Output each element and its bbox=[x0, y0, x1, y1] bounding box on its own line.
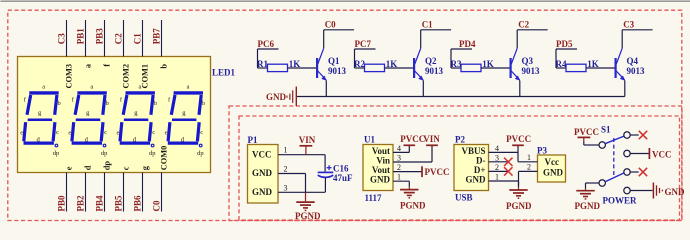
wire collector Q1 bbox=[324, 30, 354, 49]
wire P2 pin1 to ground node bbox=[489, 180, 519, 182]
power section inner dashed box bbox=[239, 116, 680, 220]
wire P3 pin1 to PVCC node bbox=[518, 161, 538, 163]
svg-text:PVCC: PVCC bbox=[425, 167, 450, 177]
switch S1 value POWER bbox=[603, 196, 638, 206]
svg-text:C1: C1 bbox=[422, 20, 433, 30]
svg-text:P3: P3 bbox=[537, 145, 547, 155]
svg-text:a: a bbox=[90, 84, 93, 91]
svg-text:Q4: Q4 bbox=[627, 56, 639, 66]
display pin wire top 4 bbox=[123, 20, 125, 57]
power port PGND under S1 bbox=[575, 189, 601, 211]
wire base R2 to Q2 bbox=[385, 67, 414, 69]
svg-text:c: c bbox=[56, 129, 59, 136]
wire PC6 stub bbox=[258, 49, 279, 68]
value 1K R2 bbox=[386, 59, 398, 69]
svg-text:b: b bbox=[106, 100, 109, 107]
digit 4 segment labels bbox=[165, 84, 205, 157]
digit 4 segments bbox=[168, 93, 203, 147]
power port PGND under P1 bbox=[295, 192, 321, 221]
resistor R3 bbox=[461, 64, 481, 71]
display pin name d bbox=[84, 165, 93, 170]
display pin name COM3 bbox=[65, 64, 74, 89]
svg-text:4: 4 bbox=[397, 144, 401, 153]
ground rail wire bbox=[297, 96, 625, 98]
svg-text:1: 1 bbox=[397, 173, 401, 182]
display pin wire top 1 bbox=[66, 20, 68, 57]
svg-text:C2: C2 bbox=[518, 20, 529, 30]
display pin wire bottom 1 bbox=[66, 173, 68, 212]
svg-text:D-: D- bbox=[476, 156, 486, 166]
switch S1 throw contact 4 bbox=[624, 187, 630, 193]
svg-text:c: c bbox=[152, 129, 155, 136]
svg-text:S1: S1 bbox=[601, 125, 611, 135]
value 47uF bbox=[333, 173, 353, 183]
svg-text:C0: C0 bbox=[325, 20, 336, 30]
switch S1 mechanical link bbox=[613, 138, 615, 178]
value 1K R1 bbox=[289, 59, 301, 69]
wire throw1 to no-connect bbox=[630, 134, 639, 136]
svg-text:PB2: PB2 bbox=[76, 195, 86, 212]
transistor Q3 bbox=[511, 48, 521, 81]
svg-text:1K: 1K bbox=[482, 59, 494, 69]
designator R3 bbox=[451, 59, 462, 69]
svg-text:PVCC: PVCC bbox=[506, 134, 531, 144]
net label PD4 bbox=[459, 39, 476, 49]
net label C3 bbox=[623, 20, 634, 30]
wire P2 pin4 to PVCC node bbox=[489, 151, 519, 153]
svg-text:c: c bbox=[104, 129, 107, 136]
P1 pin numbers bbox=[284, 146, 288, 193]
wire base R1 to Q1 bbox=[288, 67, 317, 69]
wire emitter Q1 bbox=[325, 81, 327, 97]
wire PVCC node vertical bbox=[517, 146, 519, 162]
svg-text:dp: dp bbox=[101, 150, 108, 157]
digit 2 segment labels bbox=[68, 84, 108, 157]
net label PB1 bbox=[76, 28, 86, 45]
svg-text:GND: GND bbox=[266, 92, 287, 102]
display pin wire bottom 4 bbox=[123, 173, 125, 212]
svg-text:COM1: COM1 bbox=[141, 64, 150, 89]
net label PB2 bbox=[76, 195, 86, 212]
net label C3 bbox=[57, 33, 67, 44]
svg-text:LED1: LED1 bbox=[212, 68, 236, 78]
wire base R4 to Q4 bbox=[586, 67, 615, 69]
svg-text:Q2: Q2 bbox=[425, 56, 437, 66]
designator Q3 bbox=[522, 56, 534, 66]
designator R1 bbox=[257, 59, 268, 69]
svg-text:R3: R3 bbox=[451, 59, 462, 69]
display designator LED1 bbox=[212, 68, 236, 78]
wire collector Q4 bbox=[622, 30, 652, 49]
svg-text:PGND: PGND bbox=[295, 211, 321, 221]
wire throw3 to no-connect bbox=[630, 171, 639, 173]
wire U1 pin3 to VIN bbox=[393, 146, 432, 162]
svg-text:PGND: PGND bbox=[400, 201, 426, 211]
svg-text:9013: 9013 bbox=[425, 66, 444, 76]
svg-text:PB7: PB7 bbox=[152, 28, 162, 45]
net label PB0 bbox=[57, 195, 67, 212]
svg-text:PGND: PGND bbox=[575, 201, 601, 211]
svg-text:GND: GND bbox=[252, 168, 273, 178]
display pin name COM1 bbox=[141, 64, 150, 89]
svg-text:3: 3 bbox=[284, 183, 288, 192]
svg-text:dp: dp bbox=[53, 150, 60, 157]
digit 1 segments bbox=[24, 93, 59, 147]
value 9013 Q3 bbox=[522, 66, 541, 76]
display pin name e bbox=[65, 166, 74, 170]
net label PB4 bbox=[95, 195, 105, 212]
P3 pin numbers bbox=[527, 153, 531, 172]
wire emitter Q3 bbox=[519, 81, 521, 97]
net label PC6 bbox=[258, 39, 275, 49]
designator C16 bbox=[333, 164, 349, 174]
digit 3 segments bbox=[120, 93, 155, 147]
connector P1 body bbox=[248, 145, 279, 204]
designator R4 bbox=[556, 59, 567, 69]
switch S1 blade2 bbox=[605, 173, 624, 182]
connector P3 designator bbox=[537, 145, 547, 155]
P1 pin names bbox=[252, 149, 273, 197]
resistor R4 bbox=[566, 64, 586, 71]
svg-text:9013: 9013 bbox=[522, 66, 541, 76]
svg-text:PC6: PC6 bbox=[258, 39, 275, 49]
resistor R1 bbox=[268, 64, 288, 71]
resistor R2 bbox=[365, 64, 385, 71]
U1 pin names bbox=[370, 146, 391, 185]
svg-text:e: e bbox=[117, 130, 120, 137]
display pin name g bbox=[141, 165, 150, 170]
wire P2 pin3 with no-connect bbox=[489, 161, 509, 163]
P2 pin numbers bbox=[495, 144, 499, 182]
svg-text:2: 2 bbox=[284, 165, 288, 174]
wire emitter Q4 bbox=[624, 81, 626, 97]
svg-text:PVCC: PVCC bbox=[400, 134, 425, 144]
display pin wire bottom 6 bbox=[161, 173, 163, 212]
svg-text:R1: R1 bbox=[257, 59, 268, 69]
power port VCC bbox=[649, 148, 671, 160]
display pin wire bottom 3 bbox=[104, 173, 106, 212]
svg-text:COM3: COM3 bbox=[65, 64, 74, 89]
svg-text:1: 1 bbox=[284, 146, 288, 155]
designator Q1 bbox=[328, 56, 340, 66]
svg-text:1: 1 bbox=[527, 153, 531, 162]
switch S1 throw contact 2 bbox=[624, 150, 630, 156]
value 9013 Q4 bbox=[627, 66, 646, 76]
wire throw2 to VCC bbox=[630, 153, 649, 155]
power port PVCC above U1 bbox=[400, 134, 425, 145]
svg-text:C1: C1 bbox=[133, 33, 143, 44]
value 1117 bbox=[365, 193, 383, 203]
display LED1 body bbox=[18, 57, 211, 173]
svg-text:3: 3 bbox=[397, 153, 401, 162]
svg-text:PD4: PD4 bbox=[459, 39, 476, 49]
power port PVCC above P2 bbox=[506, 134, 531, 145]
net label C1 bbox=[133, 33, 143, 44]
svg-text:PB3: PB3 bbox=[95, 28, 105, 45]
transistor Q1 bbox=[317, 48, 327, 81]
svg-text:4: 4 bbox=[495, 144, 499, 153]
svg-text:VCC: VCC bbox=[252, 149, 272, 159]
svg-text:USB: USB bbox=[455, 193, 473, 203]
svg-text:GND: GND bbox=[543, 168, 564, 178]
net label C2 bbox=[518, 20, 529, 30]
connector P2 body bbox=[454, 145, 489, 191]
svg-text:VBUS: VBUS bbox=[461, 146, 485, 156]
svg-text:D+: D+ bbox=[474, 165, 486, 175]
no-connect X on P2 pin2 bbox=[504, 167, 512, 175]
display pin wire top 5 bbox=[142, 20, 144, 57]
svg-text:b: b bbox=[58, 100, 61, 107]
capacitor C16 bbox=[318, 155, 334, 193]
switch S1 pole2 contact bbox=[599, 180, 605, 186]
wire PD5 stub bbox=[556, 49, 577, 68]
power section outer dashed box bbox=[229, 106, 682, 221]
display pin name a bbox=[84, 63, 93, 68]
svg-text:9013: 9013 bbox=[627, 66, 646, 76]
svg-text:PC7: PC7 bbox=[355, 39, 372, 49]
svg-text:d: d bbox=[84, 165, 93, 170]
svg-text:PB6: PB6 bbox=[133, 195, 143, 212]
net label C0 bbox=[152, 200, 162, 211]
connector P1 designator bbox=[248, 135, 258, 145]
net label PB6 bbox=[133, 195, 143, 212]
power port PGND under U1 bbox=[400, 187, 426, 211]
svg-text:P2: P2 bbox=[455, 134, 465, 144]
wire PC7 stub bbox=[355, 49, 376, 68]
net label PB5 bbox=[114, 195, 124, 212]
svg-text:1K: 1K bbox=[289, 59, 301, 69]
digit 3 segment labels bbox=[117, 84, 157, 157]
value 9013 Q1 bbox=[328, 66, 347, 76]
display pin wire bottom 5 bbox=[142, 173, 144, 212]
net label PD5 bbox=[556, 39, 573, 49]
svg-text:Vout: Vout bbox=[372, 146, 390, 156]
svg-text:P1: P1 bbox=[248, 135, 258, 145]
svg-text:R4: R4 bbox=[556, 59, 567, 69]
svg-text:PB1: PB1 bbox=[76, 28, 86, 45]
svg-text:Vin: Vin bbox=[376, 156, 390, 166]
svg-text:Vcc: Vcc bbox=[545, 157, 560, 167]
regulator U1 body bbox=[363, 145, 393, 191]
value 1K R4 bbox=[587, 59, 599, 69]
wire P1 pin3 to C16 bottom bbox=[278, 191, 325, 193]
svg-text:1K: 1K bbox=[386, 59, 398, 69]
svg-text:U1: U1 bbox=[364, 134, 375, 144]
wire PD4 stub bbox=[451, 49, 472, 68]
U1 pin numbers bbox=[397, 144, 401, 182]
switch S1 blade1 bbox=[605, 136, 624, 144]
power port PVCC at S1 bbox=[574, 127, 599, 142]
wire P3 pin2 to ground node bbox=[519, 171, 538, 181]
display pin wire top 6 bbox=[161, 20, 163, 57]
display pin name f bbox=[103, 64, 112, 67]
display pin wire top 3 bbox=[104, 20, 106, 57]
designator Q2 bbox=[425, 56, 437, 66]
P2 pin names bbox=[461, 146, 486, 185]
svg-text:3: 3 bbox=[495, 153, 499, 162]
window top edge line bbox=[1, 0, 690, 2]
svg-text:C2: C2 bbox=[114, 33, 124, 44]
svg-text:dp: dp bbox=[103, 161, 112, 171]
svg-text:c: c bbox=[200, 129, 203, 136]
value USB bbox=[455, 193, 473, 203]
value 1K R3 bbox=[482, 59, 494, 69]
svg-text:e: e bbox=[20, 130, 23, 137]
svg-text:2: 2 bbox=[527, 163, 531, 172]
connector P2 designator bbox=[455, 134, 465, 144]
svg-text:2: 2 bbox=[397, 163, 401, 172]
svg-text:dp: dp bbox=[149, 150, 156, 157]
digit 2 segments bbox=[72, 93, 107, 147]
display pin name COM0 bbox=[160, 146, 169, 171]
regulator U1 designator bbox=[364, 134, 375, 144]
wire U1 pin2 to PVCC right bbox=[393, 171, 421, 173]
power port GND transistor rail bbox=[266, 87, 296, 107]
svg-text:a: a bbox=[42, 84, 45, 91]
power port PGND under P2 bbox=[506, 181, 532, 211]
svg-text:Vout: Vout bbox=[372, 165, 390, 175]
wire base R3 to Q3 bbox=[481, 67, 510, 69]
designator R2 bbox=[354, 59, 365, 69]
switch S1 pole1 contact bbox=[599, 142, 605, 148]
wire P1 pin1 to VIN and C16 bbox=[278, 154, 325, 156]
svg-text:47uF: 47uF bbox=[333, 173, 353, 183]
wire P2 pin2 with no-connect bbox=[489, 170, 509, 172]
svg-text:PB5: PB5 bbox=[114, 195, 124, 212]
wire throw4 to GND bbox=[630, 190, 652, 192]
svg-text:POWER: POWER bbox=[603, 196, 638, 206]
wire U1 pin1 down bbox=[393, 181, 409, 187]
power port GND at S1 bbox=[653, 183, 685, 199]
digit 1 segment labels bbox=[20, 84, 60, 157]
svg-text:GND: GND bbox=[370, 175, 391, 185]
no-connect X throw1 bbox=[639, 131, 647, 139]
net label C2 bbox=[114, 33, 124, 44]
svg-text:GND: GND bbox=[665, 187, 686, 197]
svg-text:GND: GND bbox=[252, 187, 273, 197]
no-connect X throw3 bbox=[639, 168, 647, 176]
svg-text:1: 1 bbox=[495, 173, 499, 182]
svg-text:Q1: Q1 bbox=[328, 56, 340, 66]
net label PC7 bbox=[355, 39, 372, 49]
svg-text:PD5: PD5 bbox=[556, 39, 573, 49]
display pin name b bbox=[160, 64, 169, 69]
net label C0 bbox=[325, 20, 336, 30]
svg-text:PVCC: PVCC bbox=[574, 127, 599, 137]
svg-text:e: e bbox=[65, 166, 74, 170]
power port PVCC right of U1 bbox=[422, 166, 450, 177]
svg-text:GND: GND bbox=[466, 175, 487, 185]
svg-text:C3: C3 bbox=[57, 33, 67, 44]
net label C1 bbox=[422, 20, 433, 30]
svg-text:COM0: COM0 bbox=[160, 146, 169, 171]
wire S1 pole2 to PGND bbox=[586, 183, 600, 189]
wire PVCC to S1 pole1 bbox=[584, 142, 599, 146]
svg-text:dp: dp bbox=[197, 150, 204, 157]
no-connect X on P2 pin3 bbox=[504, 158, 512, 166]
svg-text:VIN: VIN bbox=[423, 134, 440, 144]
svg-text:1117: 1117 bbox=[365, 193, 383, 203]
P3 pin names bbox=[543, 157, 564, 178]
svg-text:1K: 1K bbox=[587, 59, 599, 69]
svg-text:COM2: COM2 bbox=[122, 64, 131, 89]
svg-text:VIN: VIN bbox=[299, 135, 316, 145]
svg-text:e: e bbox=[68, 130, 71, 137]
power port VIN bbox=[299, 135, 316, 155]
svg-text:9013: 9013 bbox=[328, 66, 347, 76]
svg-text:b: b bbox=[154, 100, 157, 107]
designator Q4 bbox=[627, 56, 639, 66]
svg-text:c: c bbox=[122, 166, 131, 170]
switch S1 throw contact 3 bbox=[624, 169, 630, 175]
net label PB7 bbox=[152, 28, 162, 45]
wire collector Q2 bbox=[421, 30, 451, 49]
svg-text:b: b bbox=[202, 100, 205, 107]
display pin name COM2 bbox=[122, 64, 131, 89]
display pin name c bbox=[122, 166, 131, 170]
svg-text:a: a bbox=[187, 84, 190, 91]
power port VIN above U1 bbox=[423, 134, 440, 145]
wire P1 pin2 down bbox=[278, 174, 306, 193]
svg-text:C3: C3 bbox=[623, 20, 634, 30]
svg-text:2: 2 bbox=[495, 163, 499, 172]
svg-text:b: b bbox=[160, 64, 169, 69]
svg-text:e: e bbox=[165, 130, 168, 137]
svg-text:PB0: PB0 bbox=[57, 195, 67, 212]
transistor Q4 bbox=[616, 48, 626, 81]
svg-text:PB4: PB4 bbox=[95, 195, 105, 212]
switch S1 throw contact 1 bbox=[624, 132, 630, 138]
switch S1 designator bbox=[601, 125, 611, 135]
display pin wire bottom 2 bbox=[85, 173, 87, 212]
wire collector Q3 bbox=[517, 30, 547, 49]
svg-text:f: f bbox=[103, 64, 112, 67]
svg-text:PGND: PGND bbox=[506, 201, 532, 211]
connector P3 body bbox=[538, 155, 566, 182]
transistor Q2 bbox=[414, 48, 424, 81]
svg-text:R2: R2 bbox=[354, 59, 365, 69]
display pin wire top 2 bbox=[85, 20, 87, 57]
wire emitter Q2 bbox=[422, 81, 424, 97]
svg-text:a: a bbox=[139, 84, 142, 91]
svg-text:C0: C0 bbox=[152, 200, 162, 211]
value 9013 Q2 bbox=[425, 66, 444, 76]
wire U1 pin4 to PVCC bbox=[393, 146, 409, 152]
net label PB3 bbox=[95, 28, 105, 45]
svg-text:VCC: VCC bbox=[652, 150, 672, 160]
display pin name dp bbox=[103, 161, 112, 171]
svg-text:Q3: Q3 bbox=[522, 56, 534, 66]
